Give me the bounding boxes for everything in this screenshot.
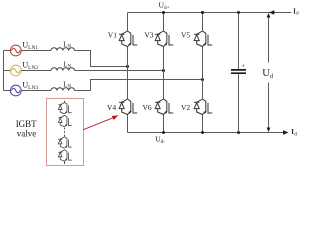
svg-text:V1: V1 [108, 30, 117, 39]
wire: stub to source 1 [4, 50, 11, 52]
svg-text:+: + [242, 63, 246, 70]
wire: valve chain top lead [64, 101, 66, 103]
node: phase 2 junction [162, 69, 165, 72]
svg-text:V4: V4 [107, 103, 116, 112]
node: positive rail junction [201, 11, 204, 14]
transistor V6 [155, 99, 173, 115]
current arrow I_d top (pointing left) [269, 10, 275, 15]
transistor V3 [155, 31, 173, 47]
wire: phase 1 step down to leg 1 [75, 51, 128, 67]
wire: bridge leg 2 [163, 13, 165, 133]
wire: stub to source 3 [4, 90, 11, 92]
transistor valve cell 3 [58, 137, 71, 148]
wire: DC positive rail [128, 12, 292, 14]
red callout arrow from valve box to V4 [83, 118, 114, 130]
wire: valve chain bottom lead [64, 161, 66, 164]
wire: phase 3 source to inductor [21, 90, 51, 92]
IGBT valve box [47, 99, 84, 166]
wire: phase 2 straight to leg 2 [75, 70, 164, 72]
inductor L_N phase 1 [51, 48, 75, 51]
svg-text:valve: valve [17, 128, 37, 138]
voltage arrow U_d line segments [268, 17, 270, 129]
node: phase 3 junction [201, 78, 204, 81]
node: negative rail junction [201, 131, 204, 134]
wire: neutral bus vertical [3, 51, 5, 91]
node: positive rail junction [237, 11, 240, 14]
transistor valve cell 2 [58, 115, 71, 126]
svg-text:V2: V2 [181, 103, 190, 112]
transistor V1 [119, 31, 137, 47]
wire: bridge leg 3 [202, 13, 204, 133]
voltage arrow U_d head up [267, 13, 271, 18]
wire: bridge leg 1 [127, 13, 129, 133]
transistor valve cell 1 [58, 102, 71, 113]
capacitor C leads [238, 13, 240, 133]
transistor V4 [119, 99, 137, 115]
transistor valve cell 4 [58, 150, 71, 161]
inductor L_N phase 2 [51, 68, 75, 71]
AC source U_LN2 [10, 65, 21, 76]
transistor V2 [194, 99, 212, 115]
wire: phase 3 step up to leg 3 [75, 80, 203, 91]
capacitor C plates [231, 70, 246, 73]
voltage arrow U_d head down [267, 128, 271, 133]
svg-text:V3: V3 [144, 30, 153, 39]
wire: DC negative rail [128, 132, 285, 134]
node: negative rail junction [162, 131, 165, 134]
node: phase 1 junction [126, 65, 129, 68]
inductor L_N phase 3 [51, 88, 75, 91]
wire: phase 1 source to inductor [21, 50, 51, 52]
AC source U_LN3 [10, 85, 21, 96]
transistor V5 [194, 31, 212, 47]
node: positive rail junction [162, 11, 165, 14]
wire: phase 2 source to inductor [21, 70, 51, 72]
svg-text:d: d [296, 12, 299, 17]
svg-text:V5: V5 [181, 30, 190, 39]
AC source U_LN1 [10, 45, 21, 56]
svg-text:V6: V6 [143, 103, 152, 112]
node: negative rail junction [237, 131, 240, 134]
wire: valve chain dashed continuation [64, 128, 66, 137]
wire: stub to source 2 [4, 70, 11, 72]
current arrow I_d bottom (pointing right) [283, 130, 289, 135]
